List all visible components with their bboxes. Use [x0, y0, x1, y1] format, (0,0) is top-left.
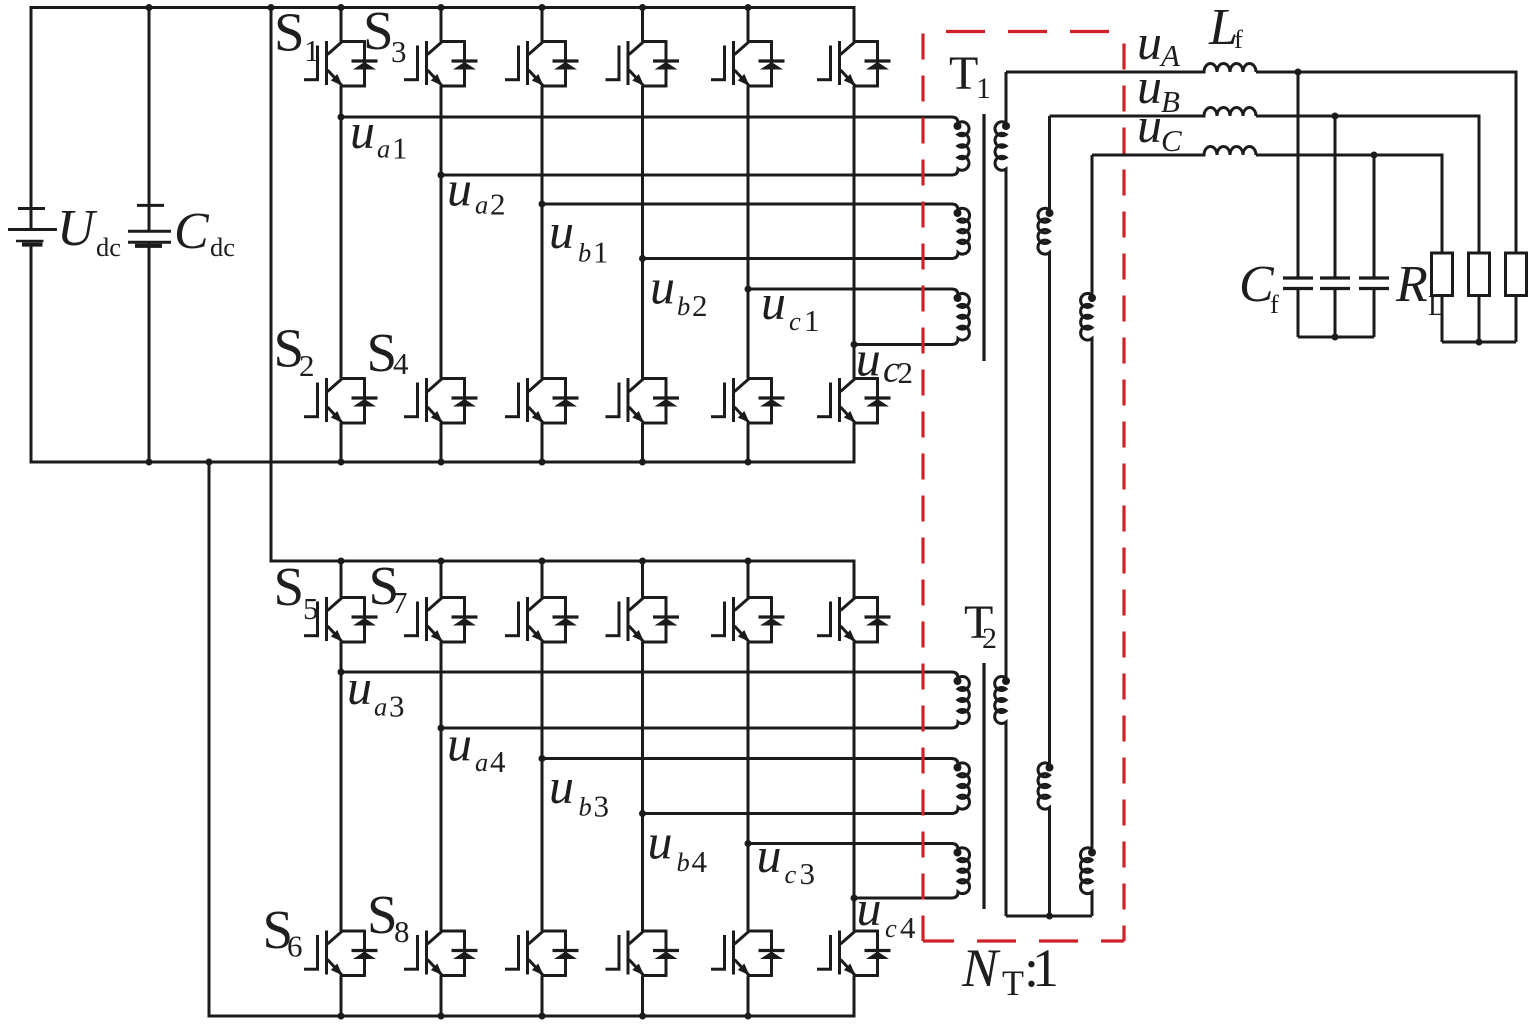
svg-text:u: u [347, 659, 372, 715]
svg-text:b: b [578, 238, 591, 268]
svg-text:S: S [274, 2, 305, 63]
svg-text:3: 3 [800, 856, 816, 891]
svg-text:b: b [579, 792, 592, 822]
svg-text:8: 8 [394, 914, 410, 949]
svg-text:C: C [174, 203, 210, 260]
svg-text:C: C [1161, 123, 1182, 158]
svg-text:B: B [1161, 84, 1180, 119]
svg-text:4: 4 [490, 744, 506, 779]
svg-text:S: S [367, 884, 398, 945]
svg-text:A: A [1159, 38, 1181, 73]
svg-text:u: u [857, 880, 882, 936]
svg-text:T: T [1002, 963, 1024, 1003]
svg-text:b: b [677, 291, 690, 321]
svg-text:c: c [885, 913, 897, 943]
svg-text:4: 4 [692, 844, 708, 879]
svg-text:a: a [475, 747, 488, 777]
svg-text:S: S [274, 556, 305, 617]
svg-text:u: u [447, 161, 472, 217]
svg-text:5: 5 [303, 591, 319, 626]
svg-text:2: 2 [299, 348, 315, 383]
svg-text:1: 1 [976, 72, 991, 105]
svg-text:6: 6 [287, 929, 303, 964]
svg-text:T: T [949, 47, 978, 100]
svg-text:u: u [650, 259, 675, 315]
svg-text:u: u [761, 274, 786, 330]
svg-text:u: u [757, 827, 782, 883]
svg-text:f: f [1270, 289, 1279, 319]
svg-text:S: S [363, 0, 394, 61]
svg-text:N: N [961, 938, 1001, 998]
svg-text:R: R [1395, 256, 1428, 313]
svg-text:3: 3 [389, 689, 405, 724]
svg-text:b: b [677, 847, 690, 877]
svg-text:1: 1 [304, 33, 320, 68]
svg-text:L: L [1428, 291, 1445, 322]
svg-text:dc: dc [96, 232, 121, 262]
svg-text:c: c [789, 306, 801, 336]
svg-text:2: 2 [982, 622, 997, 655]
svg-text:1: 1 [1032, 938, 1059, 998]
svg-text:u: u [549, 203, 574, 259]
svg-text:u: u [856, 331, 881, 387]
svg-text:u: u [1137, 97, 1162, 153]
svg-text:dc: dc [210, 232, 235, 262]
svg-text:2: 2 [490, 187, 506, 222]
svg-text:a: a [377, 134, 390, 164]
svg-text:1: 1 [392, 131, 408, 166]
svg-text:u: u [648, 814, 673, 870]
svg-text:4: 4 [393, 346, 409, 381]
svg-text:u: u [549, 758, 574, 814]
svg-text:4: 4 [900, 910, 916, 945]
svg-text:1: 1 [593, 235, 609, 270]
svg-text:7: 7 [392, 585, 408, 620]
svg-text:a: a [475, 190, 488, 220]
svg-text:2: 2 [898, 355, 914, 390]
svg-text:U: U [57, 200, 98, 257]
svg-text:f: f [1234, 24, 1243, 54]
svg-text:2: 2 [692, 288, 708, 323]
svg-text:a: a [374, 692, 387, 722]
svg-text:u: u [350, 103, 375, 159]
svg-text:3: 3 [391, 34, 407, 69]
svg-text:u: u [447, 716, 472, 772]
svg-text:1: 1 [804, 303, 820, 338]
svg-text:c: c [785, 859, 797, 889]
svg-text:3: 3 [594, 789, 610, 824]
